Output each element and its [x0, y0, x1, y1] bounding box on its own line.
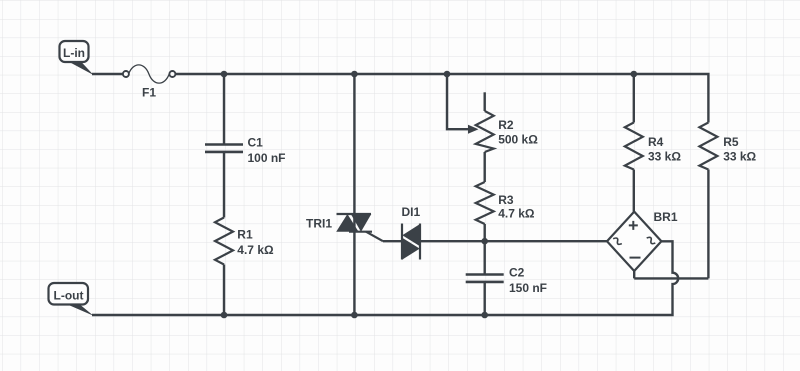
wire: TRI1 vertical main	[353, 74, 355, 315]
wire: C1 to R1	[223, 152, 225, 217]
resistor R1	[215, 218, 233, 265]
wire: R5 to hop rail	[707, 170, 709, 279]
junction: top rail at C1	[221, 71, 228, 78]
resistor R4	[625, 123, 643, 170]
wire: BR1 right vertex down (with hop) to bottom rail and L-out	[92, 241, 678, 315]
svg-text:L-out: L-out	[54, 289, 84, 303]
bridge rectifier BR1	[607, 212, 661, 271]
svg-text:TRI1: TRI1	[306, 217, 332, 231]
wire: R4 to BR1 top vertex	[633, 170, 635, 212]
wire: DI1 to BR1 left vertex	[420, 240, 607, 242]
svg-text:R3: R3	[498, 193, 514, 207]
svg-text:R2: R2	[498, 118, 514, 132]
junction: bottom rail at C2	[481, 312, 488, 319]
svg-text:150 nF: 150 nF	[509, 281, 547, 295]
wire: R2 wiper from top rail	[447, 74, 468, 129]
junction: top rail at R4	[631, 71, 638, 78]
svg-text:100 nF: 100 nF	[248, 151, 286, 165]
wire: R4 top lead	[633, 74, 635, 123]
junction: bottom rail at R1	[221, 312, 228, 319]
potentiometer R2	[476, 111, 494, 152]
junction: top rail at R2 wiper	[444, 71, 451, 78]
svg-text:4.7 kΩ: 4.7 kΩ	[237, 243, 274, 257]
svg-text:4.7 kΩ: 4.7 kΩ	[498, 207, 535, 221]
svg-text:C1: C1	[248, 136, 264, 150]
wire: C2 to bottom rail	[484, 282, 486, 315]
svg-text:R5: R5	[723, 135, 739, 149]
wire: R3 to gate node	[484, 224, 486, 241]
svg-text:BR1: BR1	[654, 210, 678, 224]
resistor R5	[699, 123, 717, 170]
svg-text:R1: R1	[237, 228, 253, 242]
svg-text:33 kΩ: 33 kΩ	[723, 149, 756, 163]
wiper arrow of R2	[468, 125, 479, 134]
svg-text:DI1: DI1	[401, 205, 420, 219]
wire: TRI1 gate to DI1	[383, 240, 401, 242]
svg-text:R4: R4	[648, 135, 664, 149]
wire: BR1 bottom vertex drop	[633, 271, 635, 278]
capacitor C1	[205, 145, 243, 152]
capacitor C2	[466, 275, 504, 282]
wire: R2 to R3	[484, 152, 486, 182]
wire: L-in tail to fuse	[92, 73, 123, 75]
wire: top rail from F1 to R5 corner	[175, 74, 708, 123]
svg-text:F1: F1	[142, 85, 156, 99]
triac TRI1	[336, 214, 383, 241]
svg-text:L-in: L-in	[63, 46, 85, 60]
junction: gate row at R3/C2	[481, 238, 488, 245]
wire: C1 top lead	[223, 74, 225, 144]
svg-text:33 kΩ: 33 kΩ	[648, 149, 681, 163]
wire: R2 floating top lead	[484, 92, 486, 111]
wire: BR1 bottom to R5 bottom	[634, 277, 708, 279]
diac DI1	[402, 224, 420, 260]
wire: R1 to bottom rail	[223, 265, 225, 316]
junction: top rail at TRI1	[351, 71, 358, 78]
svg-text:C2: C2	[509, 266, 525, 280]
resistor R3	[476, 182, 494, 224]
node L-out flag	[49, 283, 94, 316]
fuse F1	[123, 65, 175, 83]
node L-in flag	[60, 41, 94, 75]
wire: gate node to C2	[484, 241, 486, 274]
svg-text:500 kΩ: 500 kΩ	[498, 132, 538, 146]
junction: bottom rail at TRI1	[351, 312, 358, 319]
